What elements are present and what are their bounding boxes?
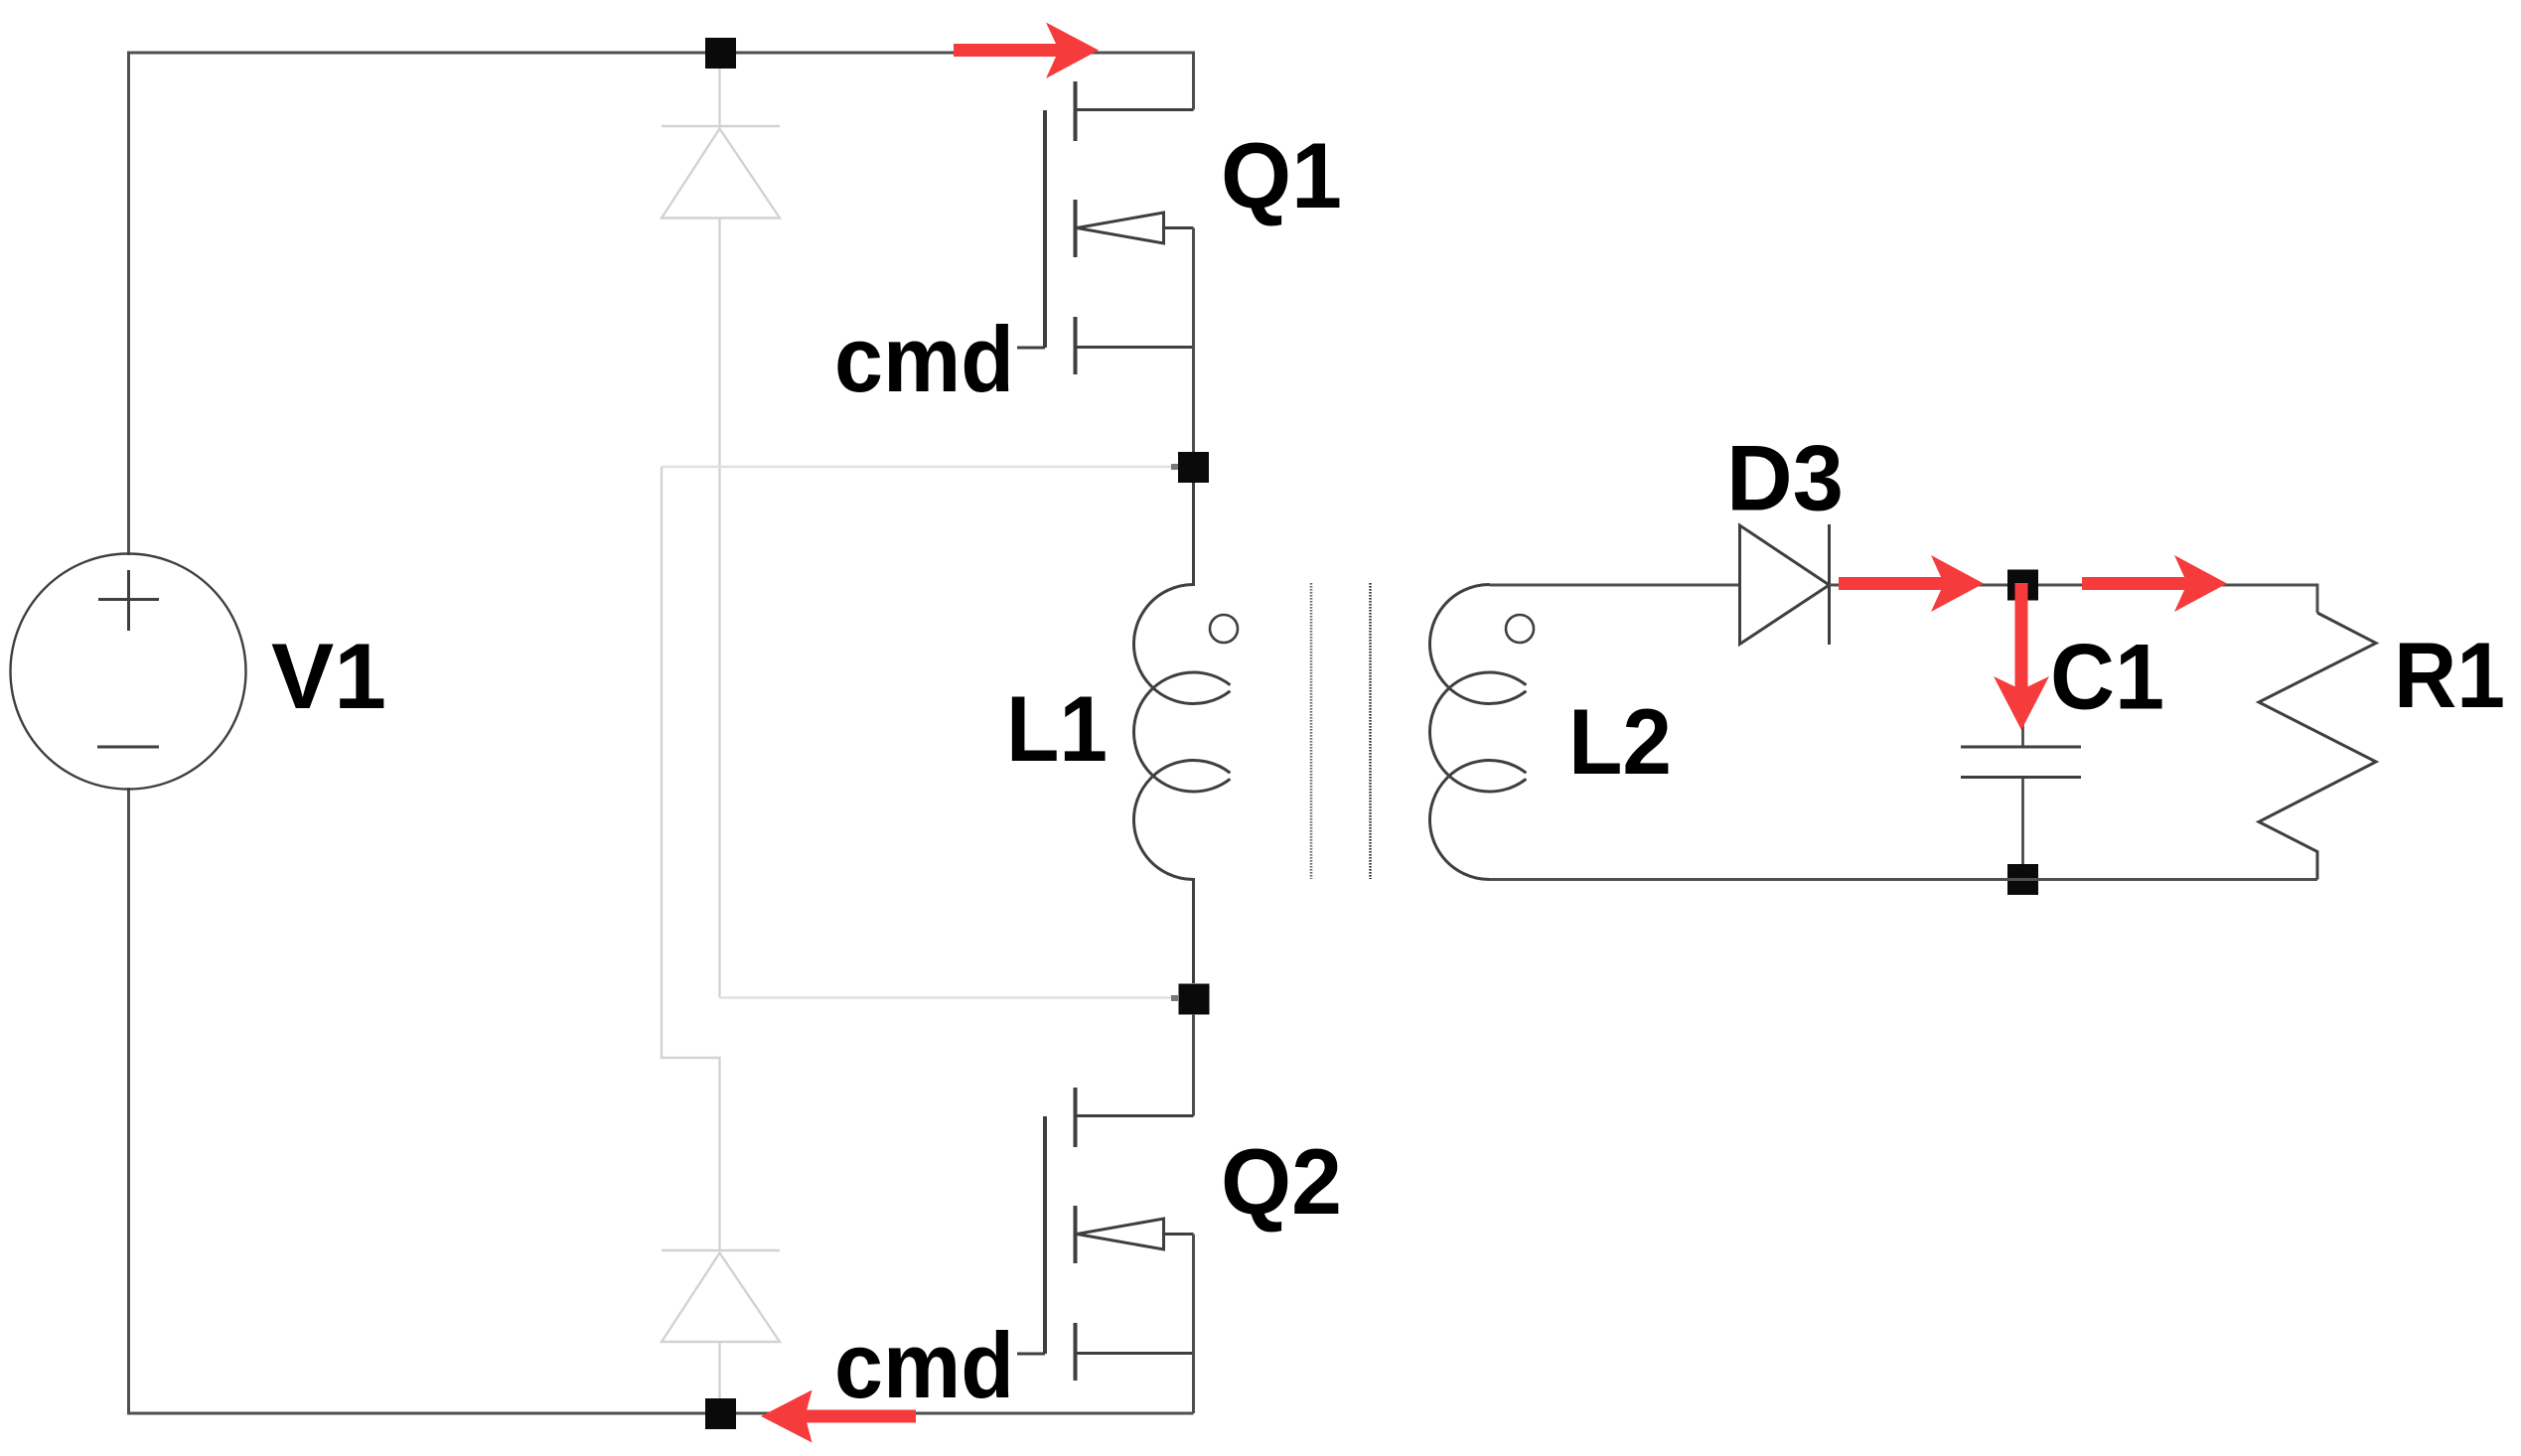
wire secondary top rail [1490,584,1740,587]
svg-text:R1: R1 [2394,623,2505,727]
diode D3 [1740,524,1830,645]
resistor R1 [2259,613,2376,880]
current arrow (into R1) [2082,555,2227,612]
svg-text:V1: V1 [271,624,386,728]
svg-text:C1: C1 [2050,625,2164,729]
svg-text:L1: L1 [1006,676,1108,781]
wire secondary bottom rail [1490,878,2318,881]
node D (C1 bottom) [2007,864,2038,895]
capacitor C1 [1961,600,2081,864]
node on top rail [705,38,736,69]
svg-text:cmd: cmd [834,307,1014,411]
diode D1 (clamp, gray) [662,53,780,998]
svg-text:cmd: cmd [834,1313,1014,1417]
wire D3 cathode to R1 top [1830,585,2318,613]
wire bottom rail from V1 to Q2 source [129,788,1194,1413]
transistor Q1 (NMOS) [1017,81,1194,467]
node B (L1 bottom / Q2 drain) [1179,984,1210,1015]
current arrow (bottom rail, left) [761,1390,916,1443]
wire gray vertical down to D2 cathode [662,467,720,1250]
node on bottom rail [705,1398,736,1429]
voltage source V1 [11,554,246,790]
current arrow (after D3) [1839,555,1984,612]
diode D2 (clamp, gray) [662,1250,780,1413]
inductor L2 (transformer secondary) [1429,585,1534,880]
current arrow (into C1, down) [1994,583,2049,730]
transformer core [1311,583,1371,879]
node A (Q1 source / L1 top) [1178,452,1209,483]
svg-text:Q2: Q2 [1221,1129,1342,1234]
wire end tick near node A [1171,464,1178,470]
svg-text:L2: L2 [1568,689,1672,794]
wire end tick near node B [1171,995,1178,1001]
current arrow (top rail) [954,23,1099,79]
inductor L1 (transformer primary) [1133,483,1238,983]
wire top rail from V1 to Q1 drain [129,53,1194,555]
svg-text:D3: D3 [1726,426,1844,530]
wire gray node A to D2 [662,466,1178,469]
svg-text:Q1: Q1 [1221,123,1342,227]
wire gray D1 anode to node B [720,996,1179,999]
node C (D3 cathode / C1 top) [2007,570,2038,601]
transistor Q2 (NMOS) [1017,1014,1194,1413]
